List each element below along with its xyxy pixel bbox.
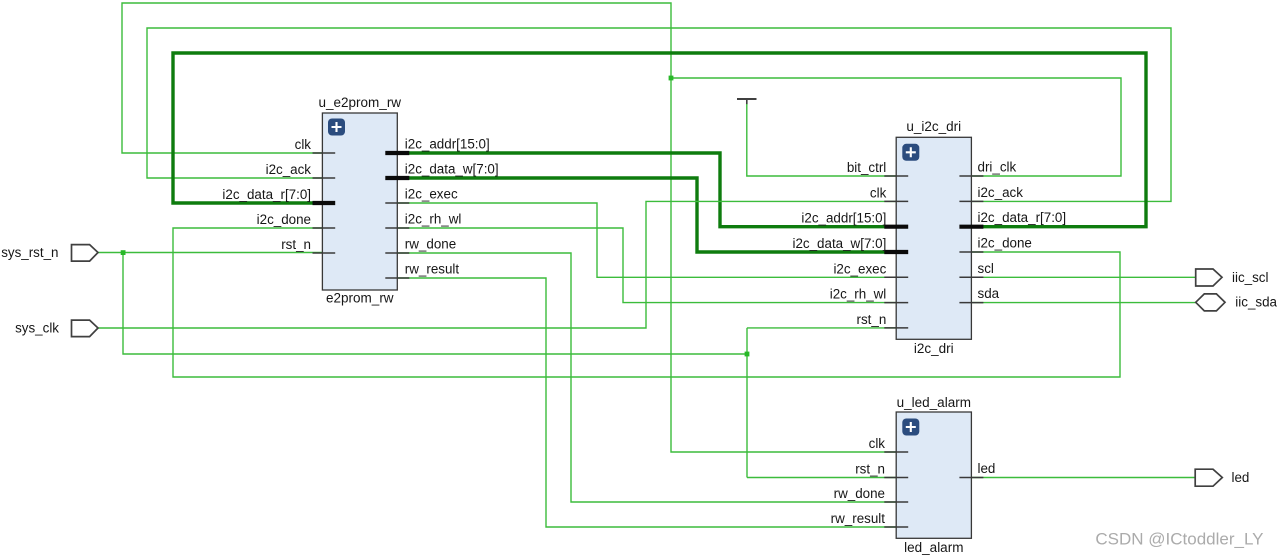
net led : wire from led_alarm.led to port led bbox=[971, 477, 1196, 479]
pin e2prom_rw.i2c_addr[15:0] (bus) bbox=[385, 137, 489, 154]
module block U2 i2c_dri bbox=[896, 119, 971, 356]
pin i2c_dri.i2c_data_r[7:0] (bus) bbox=[959, 210, 1066, 227]
svg-text:bit_ctrl: bit_ctrl bbox=[847, 160, 886, 175]
expand (+) icon of led_alarm bbox=[902, 419, 919, 436]
pin e2prom_rw.i2c_data_r[7:0] (bus) bbox=[222, 187, 335, 203]
expand (+) icon of e2prom_rw bbox=[328, 119, 345, 136]
pin i2c_dri.dri_clk bbox=[959, 160, 1016, 177]
svg-text:clk: clk bbox=[870, 185, 887, 200]
net i2c_data_r[7:0] : bus from i2c_dri.i2c_data_r to e2prom_rw.i2c_data_r bbox=[173, 53, 1146, 227]
pin led_alarm.clk bbox=[869, 436, 909, 452]
pin e2prom_rw.i2c_data_w[7:0] (bus) bbox=[385, 162, 498, 179]
pin i2c_dri.sda bbox=[959, 286, 999, 303]
pin i2c_dri.i2c_ack bbox=[959, 185, 1023, 202]
pin i2c_dri.i2c_addr[15:0] (bus) bbox=[801, 211, 908, 227]
svg-text:rw_result: rw_result bbox=[405, 262, 460, 277]
svg-text:i2c_done: i2c_done bbox=[257, 212, 311, 227]
svg-text:i2c_data_w[7:0]: i2c_data_w[7:0] bbox=[405, 162, 499, 177]
svg-text:clk: clk bbox=[295, 137, 312, 152]
junction sys_rst_n at port branch bbox=[121, 250, 126, 255]
svg-text:i2c_addr[15:0]: i2c_addr[15:0] bbox=[405, 137, 490, 152]
junction on dri_clk net bbox=[669, 76, 674, 81]
svg-text:i2c_exec: i2c_exec bbox=[405, 187, 458, 202]
net sys_rst_n : wire from port sys_rst_n to e2prom_rw.rst_n, i2c_dri.rst_n, led_alarm.rst_n bbox=[98, 253, 896, 478]
net rw_done : wire from e2prom_rw.rw_done to led_alarm.rw_done bbox=[397, 253, 896, 502]
pin i2c_dri.bit_ctrl bbox=[847, 160, 908, 176]
module block U3 led_alarm bbox=[896, 395, 971, 555]
pin e2prom_rw.i2c_ack bbox=[266, 162, 336, 178]
pin i2c_dri.rst_n bbox=[857, 312, 909, 328]
svg-text:rw_result: rw_result bbox=[831, 511, 886, 526]
input port sys_clk bbox=[15, 320, 98, 337]
expand (+) icon of i2c_dri bbox=[902, 144, 919, 161]
svg-text:i2c_data_w[7:0]: i2c_data_w[7:0] bbox=[792, 236, 886, 251]
inout port iic_sda bbox=[1196, 294, 1278, 311]
net i2c_addr[15:0] : bus from e2prom_rw.i2c_addr to i2c_dri.i2c_addr bbox=[397, 153, 896, 227]
junction sys_rst_n near i2c_dri bbox=[745, 352, 750, 357]
svg-text:rst_n: rst_n bbox=[855, 462, 885, 477]
net scl : wire from i2c_dri.scl to port iic_scl bbox=[971, 276, 1196, 278]
pin led_alarm.rst_n bbox=[855, 462, 908, 478]
svg-text:dri_clk: dri_clk bbox=[978, 160, 1017, 175]
pin i2c_dri.scl bbox=[959, 261, 993, 278]
pin e2prom_rw.rw_done bbox=[385, 237, 456, 254]
svg-text:i2c_addr[15:0]: i2c_addr[15:0] bbox=[801, 211, 886, 226]
pin i2c_dri.i2c_exec bbox=[833, 261, 908, 277]
svg-text:e2prom_rw: e2prom_rw bbox=[326, 291, 394, 306]
svg-text:rst_n: rst_n bbox=[857, 312, 887, 327]
input port sys_rst_n bbox=[1, 245, 98, 262]
svg-text:i2c_ack: i2c_ack bbox=[978, 185, 1024, 200]
svg-text:rw_done: rw_done bbox=[834, 486, 885, 501]
svg-text:i2c_data_r[7:0]: i2c_data_r[7:0] bbox=[978, 210, 1067, 225]
svg-text:u_e2prom_rw: u_e2prom_rw bbox=[319, 95, 402, 110]
svg-text:i2c_exec: i2c_exec bbox=[833, 261, 886, 276]
net i2c_exec : wire from e2prom_rw.i2c_exec to i2c_dri.i2c_exec bbox=[397, 203, 896, 277]
pin i2c_dri.clk bbox=[870, 185, 908, 201]
svg-text:i2c_rh_wl: i2c_rh_wl bbox=[405, 212, 462, 227]
net i2c_done : wire from i2c_dri.i2c_done to e2prom_rw.i2c_done bbox=[173, 228, 1120, 377]
pin e2prom_rw.rw_result bbox=[385, 262, 459, 279]
svg-text:iic_sda: iic_sda bbox=[1235, 295, 1277, 310]
net sda : wire from i2c_dri.sda to port iic_sda bbox=[971, 302, 1196, 304]
svg-text:rw_done: rw_done bbox=[405, 237, 456, 252]
svg-text:sys_clk: sys_clk bbox=[15, 321, 59, 336]
svg-text:sys_rst_n: sys_rst_n bbox=[1, 245, 58, 260]
svg-text:u_led_alarm: u_led_alarm bbox=[897, 395, 971, 410]
module block U1 e2prom_rw bbox=[319, 95, 402, 306]
svg-text:rst_n: rst_n bbox=[281, 237, 311, 252]
pin i2c_dri.i2c_rh_wl bbox=[830, 287, 908, 303]
svg-text:i2c_data_r[7:0]: i2c_data_r[7:0] bbox=[222, 187, 311, 202]
pin e2prom_rw.rst_n bbox=[281, 237, 335, 253]
pin e2prom_rw.clk bbox=[295, 137, 336, 153]
svg-text:iic_scl: iic_scl bbox=[1232, 270, 1268, 285]
pin led_alarm.led bbox=[959, 461, 995, 478]
svg-text:CSDN @ICtoddler_LY: CSDN @ICtoddler_LY bbox=[1095, 530, 1263, 549]
svg-text:led: led bbox=[1232, 470, 1250, 485]
pin led_alarm.rw_result bbox=[831, 511, 909, 527]
net i2c_rh_wl : wire from e2prom_rw.i2c_rh_wl to i2c_dri.i2c_rh_wl bbox=[397, 228, 896, 303]
svg-text:i2c_done: i2c_done bbox=[978, 236, 1032, 251]
svg-text:u_i2c_dri: u_i2c_dri bbox=[906, 119, 961, 134]
output port led bbox=[1195, 469, 1249, 486]
svg-text:led_alarm: led_alarm bbox=[904, 540, 963, 555]
svg-text:scl: scl bbox=[978, 261, 994, 276]
pin e2prom_rw.i2c_done bbox=[257, 212, 336, 228]
svg-text:led: led bbox=[978, 461, 996, 476]
net i2c_data_w[7:0] : bus from e2prom_rw.i2c_data_w to i2c_dri.i2c_data_w bbox=[397, 178, 896, 252]
pin i2c_dri.i2c_done bbox=[959, 236, 1031, 253]
pin e2prom_rw.i2c_exec bbox=[385, 187, 458, 204]
pin led_alarm.rw_done bbox=[834, 486, 909, 502]
net rw_result : wire from e2prom_rw.rw_result to led_alarm.rw_result bbox=[397, 278, 896, 527]
pin i2c_dri.i2c_data_w[7:0] (bus) bbox=[792, 236, 908, 252]
svg-text:sda: sda bbox=[978, 286, 1000, 301]
pin e2prom_rw.i2c_rh_wl bbox=[385, 212, 461, 229]
svg-text:i2c_dri: i2c_dri bbox=[914, 341, 954, 356]
constant driver symbol (tie-off bar) for i2c_dri.bit_ctrl bbox=[737, 99, 896, 176]
net sys_clk : wire from port sys_clk to i2c_dri.clk bbox=[98, 201, 896, 328]
svg-text:i2c_ack: i2c_ack bbox=[266, 162, 312, 177]
svg-text:clk: clk bbox=[869, 436, 886, 451]
output port iic_scl bbox=[1196, 269, 1269, 286]
net i2c_ack : wire from i2c_dri.i2c_ack to e2prom_rw.i2c_ack bbox=[147, 28, 1171, 201]
svg-text:i2c_rh_wl: i2c_rh_wl bbox=[830, 287, 887, 302]
net dri_clk : wire from i2c_dri.dri_clk to e2prom_rw.clk and led_alarm.clk bbox=[122, 3, 1121, 452]
